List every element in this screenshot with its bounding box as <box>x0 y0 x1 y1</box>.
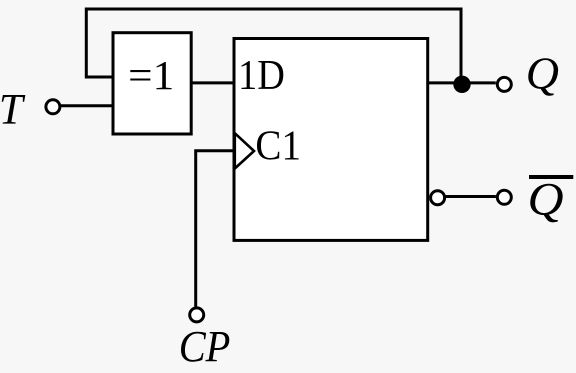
svg-text:CP: CP <box>179 322 231 371</box>
wire: T terminal to XOR input <box>61 104 115 107</box>
input terminal T <box>46 100 60 114</box>
input terminal CP <box>190 308 204 322</box>
svg-text:Q: Q <box>526 47 559 98</box>
XOR gate U1 box <box>113 33 191 134</box>
svg-text:C1: C1 <box>255 124 301 170</box>
output terminal Q-bar <box>497 190 511 204</box>
svg-text:Q: Q <box>528 174 564 226</box>
wire: CP terminal to clock input <box>196 151 236 307</box>
wire: XOR output to 1D input <box>191 81 235 84</box>
svg-text:1D: 1D <box>238 53 285 99</box>
svg-text:T: T <box>0 86 26 133</box>
output terminal Q <box>497 77 511 91</box>
wire: Q output <box>428 81 496 84</box>
junction dot on Q net <box>453 76 470 93</box>
inversion bubble on Q-bar output <box>431 191 445 205</box>
D flip-flop U2 box <box>234 39 428 241</box>
svg-text:=1: =1 <box>128 52 174 98</box>
wire: feedback net from Q output over the top into XOR input <box>86 9 461 83</box>
overline of Q-bar <box>529 175 573 179</box>
clock dynamic-input triangle <box>235 133 254 168</box>
wire: Q-bar output <box>446 195 496 198</box>
